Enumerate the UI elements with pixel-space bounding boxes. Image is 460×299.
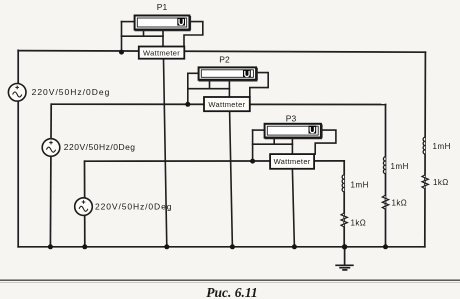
svg-text:Wattmeter: Wattmeter [143,48,180,57]
inductor L2 [383,157,385,174]
AC source V2 [42,139,60,157]
node P3 current return [292,244,297,249]
wire bus 3 [85,160,344,162]
svg-text:P1: P1 [157,2,168,12]
wattmeter P1 wiring [122,22,203,247]
node branch 2 bottom [383,244,388,249]
AC source V1 [8,84,26,102]
resistor R3 [341,213,347,227]
node V3 neutral [82,244,87,249]
wattmeter P1 panel [135,16,191,31]
wattmeter P2 wiring [188,73,268,247]
ground [335,265,353,270]
figure bottom rule [0,279,460,281]
svg-text:Wattmeter: Wattmeter [208,100,245,109]
wattmeter P3 panel [265,124,323,139]
wire load branch 1 vertical [424,52,427,247]
wattmeter P3 wiring [253,130,336,247]
node P2 current return [230,244,235,249]
svg-text:1mH: 1mH [391,162,409,171]
resistor R2 [382,195,388,209]
inductor L1 [423,137,425,154]
node P1 current return [164,244,169,249]
svg-text:1kΩ: 1kΩ [392,198,408,207]
svg-text:220V/50Hz/0Deg: 220V/50Hz/0Deg [32,87,111,97]
node P1 voltage tap [119,50,124,55]
resistor R1 [422,175,428,189]
node P3 voltage tap [250,159,255,164]
wattmeter P2 box [204,97,250,111]
svg-text:Wattmeter: Wattmeter [274,157,311,166]
svg-text:220V/50Hz/0Deg: 220V/50Hz/0Deg [64,142,136,152]
svg-text:220V/50Hz/0Deg: 220V/50Hz/0Deg [95,202,172,212]
wattmeter P3 box [270,154,314,169]
wire load branch 3 vertical [343,161,345,247]
wire top bus 1 [18,51,425,53]
node P2 voltage tap [185,102,190,107]
svg-text:P2: P2 [219,55,230,65]
svg-text:Рис. 6.11: Рис. 6.11 [206,285,257,299]
wire bottom neutral bus [18,246,425,248]
wattmeter P1 box [139,47,185,59]
wire bus 2 [51,103,385,105]
inductor L3 [342,175,344,192]
wattmeter P2 panel [199,67,258,81]
svg-text:1kΩ: 1kΩ [433,178,449,187]
svg-text:1mH: 1mH [351,180,369,189]
node V2 neutral [48,244,53,249]
svg-text:1kΩ: 1kΩ [351,218,367,227]
wire ground stem [344,247,346,265]
wire source V2 feed vertical [49,104,52,247]
wire left phase-A vertical [17,50,19,246]
AC source V3 [75,198,93,216]
wire source V3 feed vertical [84,161,86,247]
svg-text:P3: P3 [286,114,297,124]
svg-text:1mH: 1mH [433,142,451,151]
node ground junction [342,244,347,249]
wire load branch 2 vertical [385,105,387,247]
